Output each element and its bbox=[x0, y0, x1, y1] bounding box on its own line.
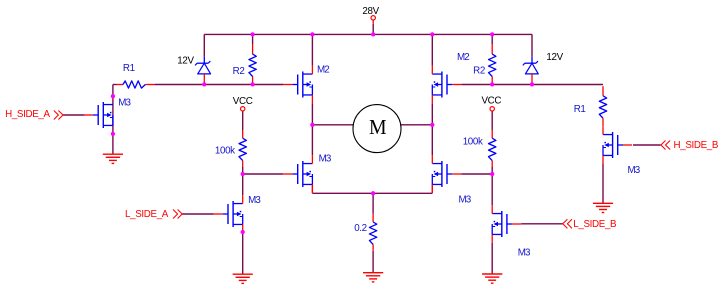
svg-text:L_SIDE_B: L_SIDE_B bbox=[573, 219, 617, 230]
svg-text:R2: R2 bbox=[233, 66, 245, 77]
svg-text:L_SIDE_A: L_SIDE_A bbox=[125, 209, 169, 220]
svg-text:M3: M3 bbox=[459, 195, 472, 206]
svg-text:M: M bbox=[369, 115, 387, 139]
svg-text:R2: R2 bbox=[473, 66, 485, 77]
svg-text:M3: M3 bbox=[248, 195, 261, 206]
svg-text:28V: 28V bbox=[362, 6, 379, 17]
svg-text:H_SIDE_B: H_SIDE_B bbox=[674, 140, 719, 151]
svg-text:H_SIDE_A: H_SIDE_A bbox=[5, 109, 50, 120]
svg-text:M3: M3 bbox=[319, 153, 332, 164]
svg-text:100k: 100k bbox=[463, 136, 483, 147]
svg-text:VCC: VCC bbox=[482, 95, 502, 106]
svg-text:M3: M3 bbox=[118, 97, 131, 108]
svg-text:12V: 12V bbox=[177, 56, 194, 67]
svg-text:M2: M2 bbox=[457, 52, 469, 63]
svg-text:12V: 12V bbox=[546, 52, 563, 63]
svg-text:M2: M2 bbox=[317, 64, 329, 75]
svg-text:0.2: 0.2 bbox=[354, 223, 367, 234]
svg-text:R1: R1 bbox=[123, 63, 135, 74]
svg-text:M3: M3 bbox=[518, 248, 531, 259]
svg-text:100k: 100k bbox=[215, 145, 235, 156]
svg-text:R1: R1 bbox=[574, 104, 586, 115]
svg-text:VCC: VCC bbox=[233, 96, 253, 107]
svg-text:M3: M3 bbox=[628, 165, 641, 176]
